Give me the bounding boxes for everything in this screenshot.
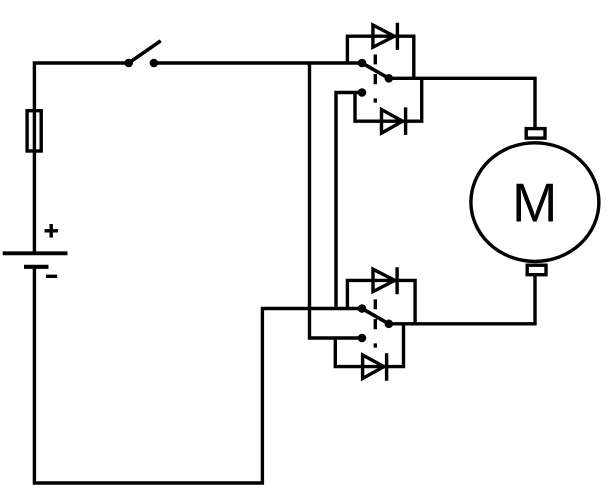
- contact K1 mechanical link dashed: [374, 55, 377, 103]
- motor M1 top terminal: [526, 129, 545, 139]
- battery BT1 positive plate: [3, 251, 68, 255]
- contact K1 common dot: [385, 74, 394, 83]
- wire K1 upper diode loop: [347, 36, 413, 78]
- switch S1 pole dot: [124, 59, 133, 68]
- contact K1 blade: [362, 63, 389, 78]
- wire K2 common to motor bottom: [389, 276, 535, 324]
- diode D2: [382, 107, 406, 134]
- fuse F1: [27, 111, 41, 151]
- switch S1 throw dot: [150, 59, 159, 68]
- motor M1 body: [471, 143, 599, 262]
- wire K2 upper diode loop: [347, 280, 415, 323]
- battery BT1 negative plate: [24, 265, 49, 269]
- motor M1 bottom terminal: [527, 265, 546, 275]
- contact K2 upper throw dot: [358, 304, 367, 313]
- svg-text:M: M: [512, 172, 557, 233]
- diode D3: [373, 267, 397, 294]
- contact K2 common dot: [385, 320, 394, 329]
- contact K2 lower throw dot: [358, 334, 367, 343]
- battery BT1 plus label: [45, 224, 59, 238]
- contact K2 blade: [362, 309, 389, 324]
- wire K1 common to motor top: [389, 78, 535, 128]
- diode D1: [373, 23, 398, 50]
- wire battery+ up and right to switch: [34, 63, 128, 254]
- wire from top rail down to K2 lower throw: [310, 63, 363, 338]
- contact K1 lower throw dot: [358, 88, 367, 97]
- switch S1 blade: [129, 41, 161, 63]
- wire battery- down and along bottom to K2: [34, 267, 362, 483]
- wire switch to contact K1: [154, 61, 362, 64]
- wire K1 lower diode loop: [355, 78, 422, 121]
- wire from K1 lower throw down to bottom rail: [336, 93, 362, 309]
- contact K1 upper throw dot: [358, 59, 367, 68]
- battery BT1 minus label: [46, 275, 57, 278]
- diode D4: [363, 353, 387, 380]
- wire K2 lower diode loop: [335, 324, 403, 367]
- contact K2 mechanical link dashed: [374, 299, 377, 347]
